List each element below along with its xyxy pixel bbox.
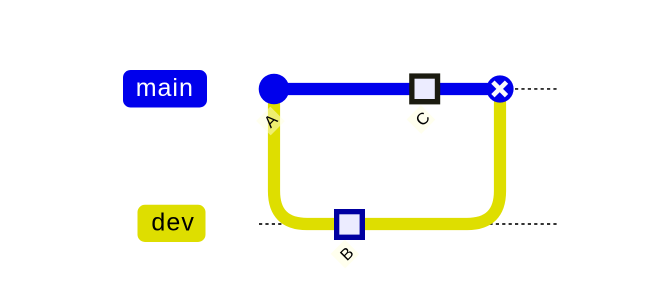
commit A (circle) (259, 74, 290, 105)
commit B (highlight inner) (339, 214, 359, 234)
lane dev (dotted) (259, 223, 557, 225)
svg-text:dev: dev (151, 209, 195, 237)
branch label dev (138, 205, 206, 242)
svg-text:main: main (136, 74, 194, 102)
commit merge (X cross) (493, 82, 507, 96)
label A (256, 107, 285, 136)
commit C (highlight inner) (415, 79, 435, 99)
lane main (dotted) (259, 88, 557, 90)
label B (331, 240, 360, 269)
branch label main (123, 70, 207, 108)
commit merge (circle) (486, 75, 513, 102)
branch main line (274, 83, 500, 95)
commit C (highlight outer) (409, 73, 440, 104)
branch dev line (274, 89, 500, 224)
commit B (highlight outer) (334, 209, 365, 240)
label C (407, 105, 436, 134)
